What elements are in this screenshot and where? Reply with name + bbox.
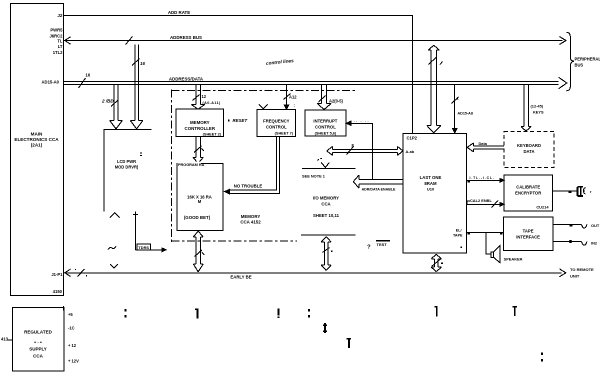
wire: CPU to tape interface <box>466 231 503 233</box>
svg-text:DATA: DATA <box>523 149 534 154</box>
arrowhead left bottom line <box>65 269 71 276</box>
main electronics CCA box <box>11 4 64 296</box>
svg-text:PROGRAM RA: PROGRAM RA <box>178 163 205 167</box>
hollow double arrow: bus to keyboard box <box>521 85 531 131</box>
wire: tape in line <box>553 241 582 243</box>
open V arrowhead above frequency control box <box>259 104 268 109</box>
slash on CPU bottom arrow <box>432 259 441 267</box>
svg-text:TAPE: TAPE <box>453 234 463 238</box>
wire: interrupt box right feed with corner <box>348 123 372 179</box>
svg-text:8RAM: 8RAM <box>424 181 437 186</box>
dash-dot memory CCA boundary bottom <box>172 240 298 242</box>
double line arrow: mux enable to left <box>353 175 403 188</box>
memory controller box U1 <box>176 109 224 137</box>
svg-text:A12: A12 <box>289 95 297 100</box>
svg-text:ADDRESS BUS: ADDRESS BUS <box>170 35 202 40</box>
slash on calibrate line2 <box>492 201 499 208</box>
tilde mark <box>108 246 116 249</box>
slash on bottom line <box>78 269 85 277</box>
brace right <box>567 32 574 91</box>
equals tick at display left edge <box>140 153 142 156</box>
dash-dot memory CCA boundary top <box>172 90 356 92</box>
svg-text:MEMORY: MEMORY <box>241 214 261 219</box>
double arrow mid column to bottom line (open heads) <box>321 237 331 271</box>
squiggle above V arrowhead <box>318 159 323 161</box>
tick below main box bottom <box>63 306 64 311</box>
svg-text:CONTROL: CONTROL <box>315 125 336 130</box>
solid arrowhead into RAM right edge <box>225 189 230 194</box>
svg-text:r: r <box>590 189 592 194</box>
pin tick on calibrate line1 <box>467 181 469 183</box>
tick on tape out line <box>570 225 573 227</box>
hollow double arrow: y40 line to CPU top (bidirectional) <box>427 45 441 133</box>
fold mark colon 3 <box>541 353 543 356</box>
svg-text:MEMORY: MEMORY <box>190 120 210 125</box>
frequency control box U3 <box>257 110 296 137</box>
CPU box U10 <box>403 133 466 253</box>
wire: bus to frequency control box <box>286 85 288 105</box>
svg-text:ADDRESS/DATA: ADDRESS/DATA <box>169 77 204 82</box>
RAM box top label backing <box>178 161 202 166</box>
tick on RF line <box>569 191 572 193</box>
wire: bus to CPU top address <box>454 85 456 128</box>
wire: short line mid column upper <box>302 167 355 169</box>
solid arrowhead into CPU top <box>453 128 457 133</box>
fold mark colon 2 <box>308 309 310 312</box>
svg-text:RESET: RESET <box>233 118 248 123</box>
svg-text:LT: LT <box>58 44 63 49</box>
svg-text:LCD PWR: LCD PWR <box>117 159 136 164</box>
svg-text:4150: 4150 <box>53 289 63 294</box>
svg-text:TEST: TEST <box>377 242 388 247</box>
svg-text:CCA 4152: CCA 4152 <box>240 220 261 225</box>
bus hollow arrowhead right <box>559 77 567 89</box>
double hollow arrow: data bus to CPU left (bidirectional) <box>327 146 403 155</box>
V arrowhead on bottom line left <box>110 264 118 268</box>
svg-text:16: 16 <box>86 73 91 78</box>
arrowhead into calibrate box line1 <box>500 178 504 182</box>
svg-text:KEYBOARD: KEYBOARD <box>517 143 541 148</box>
svg-text:SHEET 10,11: SHEET 10,11 <box>313 213 340 218</box>
arrowhead TDRS <box>162 248 166 252</box>
arrowhead right on y40 line <box>560 37 567 45</box>
wire: top line J2 to CPU <box>64 16 413 134</box>
svg-text:1: 1 <box>457 96 460 101</box>
arrowhead right bottom line <box>560 269 566 277</box>
svg-text:CCA: CCA <box>321 202 330 207</box>
keyboard dashed box <box>504 131 554 167</box>
svg-text:UNIT: UNIT <box>570 274 580 279</box>
svg-text:+ 12V: + 12V <box>68 359 79 364</box>
wire: CPU to calibrate line 1 <box>466 179 500 181</box>
svg-text:TDRS: TDRS <box>138 245 149 250</box>
svg-text:(SHEET 5,6): (SHEET 5,6) <box>315 132 337 136</box>
hollow double arrow: bus to display module <box>110 85 123 129</box>
dash-dot memory CCA boundary left <box>171 90 173 244</box>
svg-text:CU214: CU214 <box>536 205 549 210</box>
solid arrowhead into frequency control <box>284 105 288 109</box>
tick right on tape wire <box>500 233 503 235</box>
dot on tape in line <box>569 240 572 243</box>
fold mark double dagger <box>324 323 326 333</box>
svg-text:16: 16 <box>140 61 145 66</box>
fold mark colon 1 <box>124 309 126 312</box>
fold mark tee 2 <box>348 338 350 348</box>
svg-text:ADR/DATA ENABLE: ADR/DATA ENABLE <box>362 187 396 191</box>
svg-text:INTERRUPT: INTERRUPT <box>313 119 337 124</box>
svg-text:+ - +: + - + <box>34 340 43 345</box>
solid arrowhead into interrupt box right <box>346 121 350 125</box>
hollow double arrow: bus to memory controller <box>191 85 205 109</box>
power supply CCA box <box>13 308 65 372</box>
slash on CPU address wire <box>452 97 459 104</box>
double line arrow: keyboard to CPU <box>467 143 504 152</box>
svg-text:A2(0-5): A2(0-5) <box>329 99 344 104</box>
svg-text:KEYS: KEYS <box>533 110 544 115</box>
svg-text:IN2: IN2 <box>591 241 598 246</box>
fold mark bar 1 <box>197 309 199 319</box>
svg-text:EARLY BE: EARLY BE <box>230 275 251 280</box>
wire: bottom long line y273 <box>65 272 562 274</box>
svg-text:(SHEET 7): (SHEET 7) <box>275 132 294 136</box>
svg-text:ELECTRONICS CCA: ELECTRONICS CCA <box>14 137 59 142</box>
svg-text:TO REMOTE: TO REMOTE <box>570 267 594 272</box>
fold mark bang 1 <box>278 309 280 316</box>
wire: calibrate to RF connector <box>553 190 578 192</box>
slash on controller-RAM arrow <box>194 146 204 153</box>
svg-text:I.TL.-I.CL.: I.TL.-I.CL. <box>470 176 495 180</box>
svg-text:1TL2: 1TL2 <box>53 50 63 55</box>
hollow double arrow: bus to interrupt control <box>317 85 331 110</box>
dot inside CPU bottom right <box>461 247 463 249</box>
TDRS branch horizontal <box>135 249 163 251</box>
slash on frequency control wire <box>284 94 291 100</box>
svg-text:MAIN: MAIN <box>31 132 43 137</box>
svg-text:J2: J2 <box>57 13 63 18</box>
svg-text:8: 8 <box>352 143 355 148</box>
slash on data bus arrow <box>347 147 354 155</box>
svg-text:OUT: OUT <box>591 223 600 228</box>
svg-text:CONTROLLER: CONTROLLER <box>185 126 216 131</box>
arrowhead left on y40 line <box>65 37 71 44</box>
svg-text:-1C: -1C <box>68 326 75 331</box>
svg-text:REGULATED: REGULATED <box>24 330 52 335</box>
hollow double arrow: y40 line to display module <box>130 45 143 129</box>
V arrowhead onto mid line <box>321 163 329 168</box>
svg-text:PERIPHERAL: PERIPHERAL <box>575 57 600 62</box>
wire: CPU to calibrate line 2 <box>466 201 500 205</box>
jack dip tape out <box>582 224 587 228</box>
svg-text:CONTROL: CONTROL <box>266 125 287 130</box>
wire: tape out line <box>553 223 582 225</box>
dots near slash <box>75 269 76 270</box>
svg-text:Data: Data <box>479 141 488 146</box>
svg-text:I/O MEMORY: I/O MEMORY <box>313 196 339 201</box>
program RAM box U2 <box>177 164 223 231</box>
overlined test label <box>376 240 390 241</box>
caret under display module <box>110 213 120 218</box>
calibrate oscillator box <box>504 175 553 211</box>
svg-text:CALIBRATE: CALIBRATE <box>516 185 540 190</box>
svg-text:AD15-A8: AD15-A8 <box>458 112 473 116</box>
svg-text:ENCRYPTOR: ENCRYPTOR <box>515 191 541 196</box>
svg-text:EL/: EL/ <box>456 229 462 233</box>
svg-text:SUPPLY: SUPPLY <box>29 347 47 352</box>
svg-text:+ 12: + 12 <box>68 343 77 348</box>
slash on interrupt control arrow <box>319 96 326 103</box>
svg-text:2 /BD: 2 /BD <box>101 99 114 104</box>
svg-text:(2A1): (2A1) <box>31 143 43 148</box>
slash on display arrow A <box>132 59 140 66</box>
svg-text:413: 413 <box>1 337 9 342</box>
dot right of mid column arrow <box>331 250 333 252</box>
fold mark tee 1 <box>514 306 516 316</box>
svg-text:(SHEET 2): (SHEET 2) <box>203 132 222 136</box>
svg-text:M: M <box>198 199 202 204</box>
TDRS branch vertical <box>133 212 138 250</box>
slash on bus <box>79 78 86 88</box>
slash on CPU bus arrow <box>429 58 443 65</box>
wire: speaker branch <box>486 232 491 254</box>
svg-text:PWR5: PWR5 <box>50 28 63 33</box>
display module open box (top+left edges) <box>104 130 152 212</box>
hollow double arrow: memory controller down to RAM <box>193 137 203 164</box>
interrupt control box U4 <box>305 110 346 136</box>
svg-text:?: ? <box>367 245 371 251</box>
svg-text:J1-P1: J1-P1 <box>51 272 63 277</box>
svg-text:U10: U10 <box>427 187 435 192</box>
svg-text:NO TROUBLE: NO TROUBLE <box>234 184 263 189</box>
svg-text:TAPE: TAPE <box>523 229 534 234</box>
svg-text:BUS: BUS <box>575 63 584 68</box>
double arrow CPU bottom to bottom line (open heads) <box>431 254 441 272</box>
slash on memory controller arrow <box>193 95 200 101</box>
arrowhead into calibrate box line2 <box>500 202 504 206</box>
svg-text:C1P2: C1P2 <box>407 136 418 141</box>
TDRS label box <box>137 244 151 250</box>
svg-text:12: 12 <box>202 94 207 99</box>
wire: short line mid column lower <box>301 234 355 236</box>
slash on display arrow B <box>111 100 119 107</box>
svg-text:+5: +5 <box>68 312 73 317</box>
slash on RAM down arrow <box>195 250 205 257</box>
svg-text:ADD RATE: ADD RATE <box>168 10 190 15</box>
svg-text:CCA: CCA <box>33 354 43 359</box>
svg-text:FREQUENCY: FREQUENCY <box>263 119 289 124</box>
speaker driver rect <box>491 252 494 258</box>
dot right of CPU bottom arrow <box>441 262 443 264</box>
svg-text:. .. . ..: . .. . .. <box>349 118 370 123</box>
slash on y40 line <box>126 37 133 45</box>
wire: address bus line y40 <box>65 40 563 42</box>
svg-text:MOD DRVR): MOD DRVR) <box>115 165 139 170</box>
tick left on tape wire <box>467 233 470 235</box>
RF jack curve <box>583 188 585 195</box>
svg-text:AD15-A0: AD15-A0 <box>42 80 60 85</box>
bus: double line y81/y84 <box>64 82 559 85</box>
svg-text:INTERFACE: INTERFACE <box>516 235 540 240</box>
hollow double arrow: RAM down to bottom line <box>193 231 203 272</box>
svg-text:(GOOD BET): (GOOD BET) <box>184 215 211 220</box>
fold mark bar 2 <box>436 306 438 317</box>
svg-text:LAST ONE: LAST ONE <box>420 175 442 180</box>
speaker cone <box>494 246 500 263</box>
slash on mid column arrow <box>323 248 330 253</box>
bullet before reset <box>228 120 230 122</box>
svg-text:SEE NOTE 1: SEE NOTE 1 <box>302 174 326 179</box>
svg-text:(12-45): (12-45) <box>531 104 544 109</box>
svg-text:control lines: control lines <box>266 58 295 66</box>
svg-text:TL: TL <box>57 39 63 44</box>
tape interface box <box>504 217 553 251</box>
svg-text:A-ab: A-ab <box>406 149 415 154</box>
jack dip tape in <box>582 242 587 246</box>
RF connector symbol <box>578 187 583 196</box>
double line bus: frequency control down to RAM <box>230 137 280 194</box>
svg-text:(A0-A11): (A0-A11) <box>203 101 222 105</box>
svg-text:CAL2 ENBL: CAL2 ENBL <box>470 198 492 203</box>
svg-text:SPEAKER: SPEAKER <box>504 257 523 262</box>
svg-text::: : <box>294 103 296 108</box>
